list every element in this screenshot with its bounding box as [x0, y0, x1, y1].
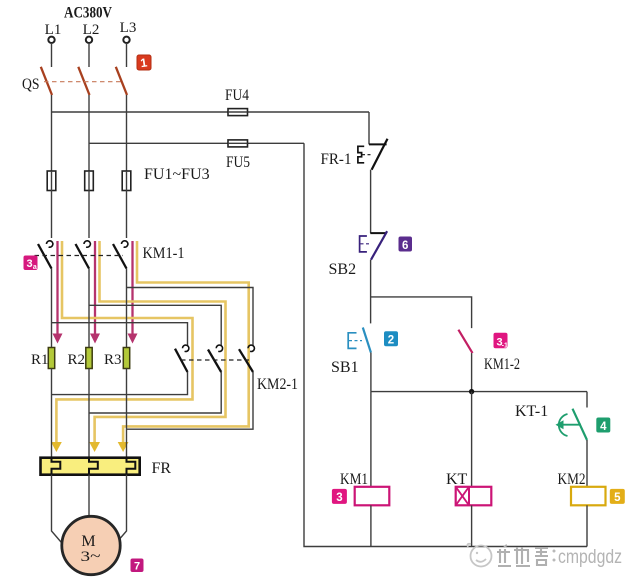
highlight wire magenta phase2: [94, 241, 96, 335]
svg-text:7: 7: [134, 561, 140, 573]
callout badge 2: [384, 331, 398, 346]
FR heater element 2: [89, 458, 98, 475]
svg-text:3: 3: [26, 258, 32, 270]
coil KT: [456, 487, 492, 506]
callout badge 1: [137, 55, 151, 70]
wire phase2 KM1-1 to R2: [88, 269, 90, 348]
svg-text:FU5: FU5: [226, 154, 250, 171]
svg-text:QS: QS: [22, 76, 40, 93]
wire phase1 R1 to FR: [51, 369, 53, 458]
thermal relay FR body: [41, 458, 140, 475]
wire feeder to FU5: [89, 142, 304, 144]
contact FR-1 actuator: [358, 146, 364, 163]
wire control rail left: [304, 143, 587, 546]
resistor R1: [48, 348, 54, 369]
resistor R3: [123, 348, 129, 369]
svg-text:SB1: SB1: [331, 359, 359, 376]
wire return KM2-1 pole2 to phase2: [89, 372, 221, 413]
FR heater element 1: [52, 458, 61, 475]
svg-text:6: 6: [402, 240, 408, 252]
callout badge 7: [131, 559, 144, 573]
wire return KM2-1 pole1 to phase1: [52, 372, 188, 395]
contactor KM2-1 pole2: [208, 345, 223, 372]
contact KT-1 blade: [573, 409, 588, 440]
contactor KM1-1 linkage dashed: [35, 255, 124, 257]
callout badge 6: [399, 237, 413, 252]
pushbutton SB2 fixed bar: [370, 232, 386, 234]
wire FR-1 to SB2: [370, 170, 372, 233]
fuse FU2: [85, 171, 94, 191]
wire junction to KT coil: [471, 392, 473, 487]
wire top feeder to FU4: [52, 111, 370, 113]
highlight wire yellow phase1 path through KM2-1 pole1: [56, 241, 192, 443]
wire KM1-2 down to junction: [471, 353, 473, 392]
wire motor lead 3: [111, 475, 127, 549]
svg-text:cmpdgdz: cmpdgdz: [558, 546, 622, 568]
wire branch phase1 to KM2-1 pole1: [52, 323, 188, 346]
svg-text:KT: KT: [446, 471, 468, 488]
svg-text:FR-1: FR-1: [321, 151, 352, 168]
switch QS pole 1 blade: [41, 67, 52, 95]
wire L1 drop to QS: [51, 43, 53, 67]
wire return KM2-1 pole3 to phase3: [127, 372, 254, 429]
svg-text:KM1: KM1: [340, 471, 368, 488]
pushbutton SB1 blade: [363, 328, 371, 353]
svg-text:FR: FR: [152, 460, 172, 477]
highlight wire magenta phase1: [56, 241, 58, 335]
svg-text:R1: R1: [31, 352, 49, 368]
wire phase2 FU2 to KM1-1: [88, 191, 90, 239]
svg-text:3: 3: [336, 492, 342, 504]
wire KM2 coil to rail: [586, 505, 588, 546]
wire L2 drop to QS: [88, 43, 90, 67]
wire branch phase2 to KM2-1 pole2: [89, 305, 221, 346]
svg-text:a: a: [33, 264, 37, 271]
highlight wire yellow phase2 path through KM2-1 pole2: [95, 241, 226, 443]
wire to KT-1: [586, 392, 588, 408]
svg-text:SB2: SB2: [329, 261, 357, 278]
watermark text: [497, 545, 548, 566]
svg-text:L3: L3: [120, 20, 137, 36]
pushbutton SB1 actuator: [348, 333, 356, 349]
wire phase3 R3 to FR: [126, 369, 128, 458]
wire SB1 branch to KM1 coil: [370, 392, 372, 487]
wire KT coil to rail: [471, 505, 473, 546]
wire bottom branch row: [371, 391, 587, 393]
wire SB2 to SB1: [370, 260, 372, 324]
contact FR-1 blade: [372, 139, 388, 170]
wire phase2 QS to FU2: [88, 95, 90, 171]
callout badge 5: [610, 489, 625, 504]
wire phase3 QS to FU3: [126, 95, 128, 171]
wire phase1 FU1 to KM1-1: [51, 191, 53, 239]
FR heater element 3: [127, 458, 136, 475]
svg-text:L1: L1: [45, 22, 62, 38]
motor M: [62, 516, 120, 574]
pushbutton SB2 blade: [371, 231, 387, 260]
highlight wire yellow phase3 path through KM2-1 pole3: [123, 241, 249, 443]
terminal L3 circle: [123, 37, 129, 43]
callout badge 3-1: [494, 333, 509, 350]
pushbutton SB2 actuator: [360, 236, 367, 252]
contactor KM1-1 pole3: [113, 241, 128, 269]
switch QS linkage dashed: [44, 81, 121, 83]
wire phase2 R2 to FR: [88, 369, 90, 458]
contactor KM2-1 pole3: [239, 345, 254, 372]
watermark logo: [467, 544, 491, 567]
coil KM1: [355, 487, 390, 506]
fuse FU5: [228, 140, 248, 147]
wire KM1 coil to rail: [370, 505, 372, 546]
svg-text:-1: -1: [502, 342, 508, 349]
contact FR-1 fixed bar: [369, 143, 387, 145]
contact KT-1 arrow: [561, 424, 581, 426]
wire FU4 to FR-1: [368, 112, 370, 144]
highlight wire magenta phase3: [131, 241, 133, 335]
contactor KM1-1 pole1: [38, 241, 53, 269]
wire KT-1 to KM2 coil: [586, 440, 588, 487]
terminal L2 circle: [86, 37, 92, 43]
svg-text:4: 4: [600, 421, 607, 433]
contact KM1-2 blade: [458, 330, 472, 353]
svg-text:KM1-1: KM1-1: [143, 245, 185, 262]
callout badge 4: [596, 418, 610, 433]
svg-text:KM2: KM2: [558, 471, 586, 488]
resistor R2: [86, 348, 92, 369]
wire branch to KM1-2: [371, 297, 472, 328]
wire L3 drop to QS: [126, 43, 128, 67]
wire motor lead 1: [52, 475, 68, 549]
wire phase3 FU3 to KM1-1: [126, 191, 128, 239]
switch QS pole 2 blade: [78, 67, 89, 95]
svg-text:2: 2: [388, 335, 394, 347]
wire phase1 KM1-1 to R1: [51, 269, 53, 348]
contactor KM2-1 pole1: [175, 345, 189, 372]
svg-text:R3: R3: [104, 352, 122, 368]
wire motor lead 2: [88, 475, 90, 515]
wire SB1 down: [370, 353, 372, 392]
svg-text:M: M: [81, 533, 95, 550]
svg-text:5: 5: [614, 492, 621, 504]
callout badge 3: [332, 489, 347, 504]
contact KT-1 delay arc: [559, 414, 568, 436]
svg-text:L2: L2: [83, 22, 100, 38]
svg-text:AC380V: AC380V: [64, 5, 112, 22]
fuse FU3: [122, 171, 131, 191]
svg-text:KM1-2: KM1-2: [484, 356, 520, 373]
svg-text:R2: R2: [68, 352, 86, 368]
contactor KM2-1 linkage dashed: [181, 359, 249, 361]
fuse FU4: [228, 109, 248, 116]
svg-text:KT-1: KT-1: [515, 403, 548, 420]
junction dot: [469, 389, 474, 394]
svg-text:3~: 3~: [81, 549, 101, 565]
svg-text:KM2-1: KM2-1: [257, 376, 298, 393]
fuse FU1: [47, 171, 56, 191]
wire branch phase3 to KM2-1 pole3: [127, 288, 254, 347]
wire phase3 KM1-1 to R3: [126, 269, 128, 348]
terminal L1 circle: [48, 37, 54, 43]
switch QS pole 3 blade: [116, 67, 127, 95]
callout badge 3a: [24, 256, 38, 272]
coil KM2: [571, 487, 606, 506]
svg-text:FU4: FU4: [225, 87, 249, 104]
wire phase1 QS to FU1: [51, 95, 53, 171]
svg-text:FU1~FU3: FU1~FU3: [144, 166, 210, 183]
contactor KM1-1 pole2: [76, 241, 91, 269]
